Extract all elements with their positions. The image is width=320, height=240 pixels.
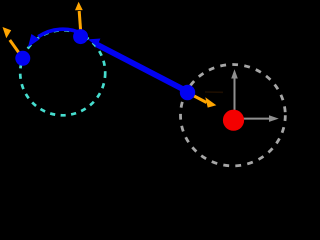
blue dot P2 bbox=[73, 29, 88, 44]
blue dot P3 bbox=[180, 85, 195, 100]
right orbit dashed circle bbox=[181, 65, 286, 166]
blue dot P1 bbox=[15, 51, 30, 66]
faint dark trajectory line bbox=[205, 91, 223, 93]
gray vertical axis arrow bbox=[231, 69, 238, 116]
gray horizontal axis arrow bbox=[236, 115, 279, 122]
blue arc along left circle bbox=[38, 29, 82, 37]
orange velocity arrow at P2 bbox=[75, 2, 83, 33]
red central body bbox=[223, 110, 244, 131]
blue straight arrow (from P3 to P2) wire bbox=[97, 44, 188, 91]
left orbit dashed circle bbox=[20, 30, 105, 115]
blue arc arrowhead bbox=[28, 34, 40, 47]
orange velocity arrow at P1 bbox=[3, 27, 23, 58]
orange velocity arrow at P3 bbox=[188, 93, 217, 108]
blue straight arrow head bbox=[88, 39, 100, 47]
